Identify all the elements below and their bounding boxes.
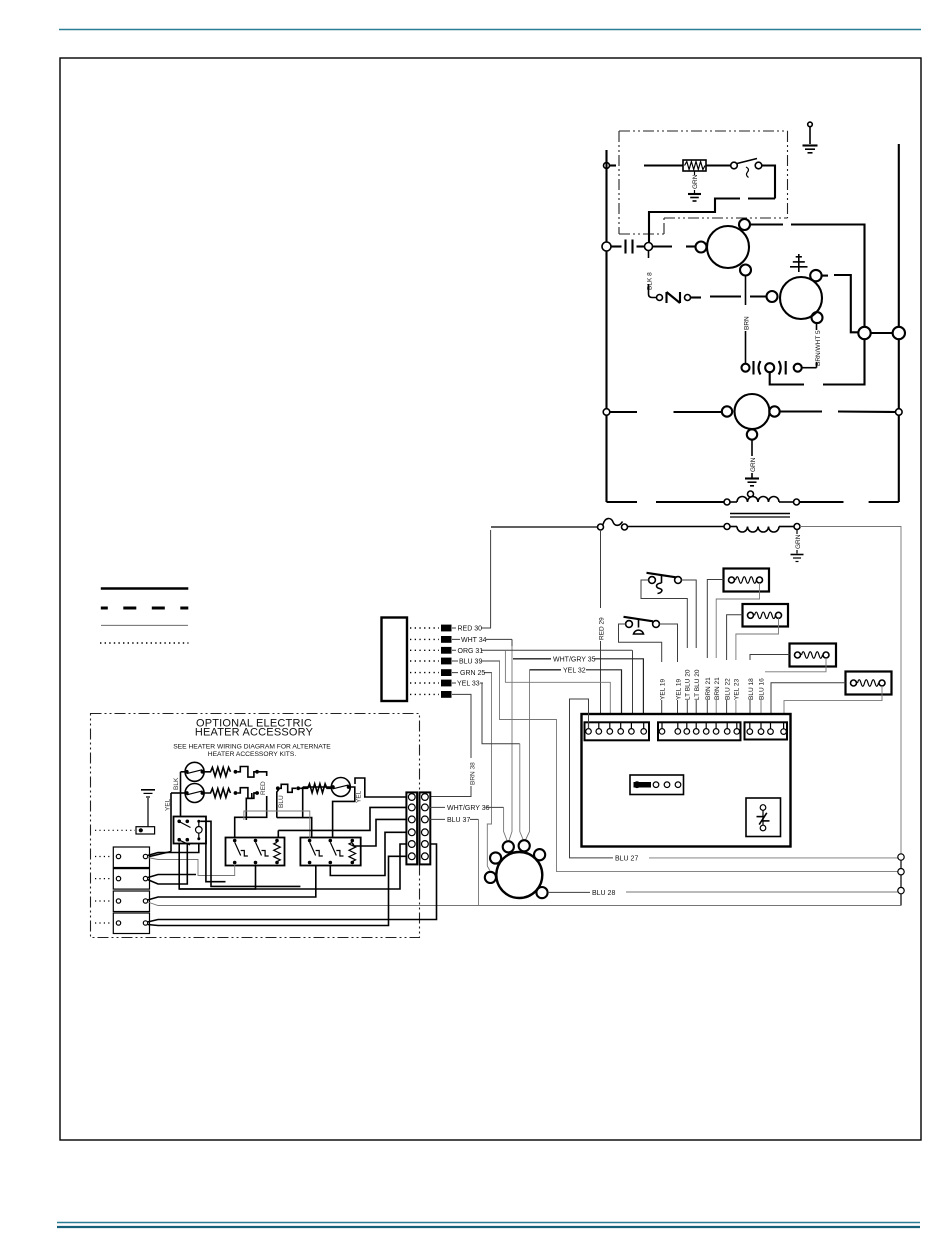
high pressure switch contact (in contactor box) xyxy=(706,159,762,178)
svg-text:RED 30: RED 30 xyxy=(458,626,483,633)
wire node to compressor xyxy=(653,245,672,247)
board inner connector xyxy=(630,775,684,795)
heater limit switch 2 xyxy=(185,784,204,803)
svg-text:BRN/WHT 5: BRN/WHT 5 xyxy=(815,330,822,366)
wire BRN 38 (7th terminal) xyxy=(452,694,471,758)
svg-text:YEL: YEL xyxy=(356,790,363,803)
ground (equipment ground, top right) xyxy=(803,122,818,153)
crankcase heater resistor xyxy=(683,160,706,171)
terminal strip 1 xyxy=(585,722,650,740)
svg-text:GRN: GRN xyxy=(795,534,802,549)
transformer core xyxy=(730,501,737,503)
block2 wiring xyxy=(148,844,197,885)
BLU 27 wire xyxy=(570,699,614,858)
BLU 37 label xyxy=(428,818,445,820)
low pressure switch wiring xyxy=(619,624,662,721)
BRN wire compressor to run cap xyxy=(744,276,751,364)
svg-text:BLU: BLU xyxy=(278,795,285,808)
heater plug right column xyxy=(420,792,431,864)
defrost control board outline xyxy=(582,714,791,847)
legend line: low voltage factory xyxy=(101,624,188,626)
circuit breaker xyxy=(491,519,628,530)
legend line: line voltage factory xyxy=(101,587,189,590)
svg-text:LT BLU 20: LT BLU 20 xyxy=(694,669,701,700)
BLK 8 wire and label xyxy=(647,251,657,298)
RED 29 riser xyxy=(599,530,606,729)
svg-text:YEL 23: YEL 23 xyxy=(734,679,741,700)
svg-text:WHT 34: WHT 34 xyxy=(461,637,487,644)
relay coil top wire xyxy=(200,821,300,886)
YEL wire from limit 3 to sequencer 2 xyxy=(333,787,363,840)
terminal strip 3 xyxy=(745,722,788,739)
grounding lug assembly xyxy=(141,790,155,827)
field terminal block 2 xyxy=(113,869,149,890)
compressor motor xyxy=(696,219,752,276)
heater element 3 xyxy=(300,784,332,793)
svg-text:RED: RED xyxy=(260,781,267,795)
fuse link 3 xyxy=(280,784,297,792)
BLU 28 wire xyxy=(548,891,590,893)
dual run capacitor xyxy=(742,361,817,375)
label YEL 32 xyxy=(530,669,562,671)
wire GRN 25 xyxy=(452,672,492,674)
secondary right grey rail to low-voltage chain xyxy=(800,527,901,854)
low pressure switch xyxy=(624,617,660,634)
fuse link 2 xyxy=(237,788,257,799)
right low-voltage terminal chain xyxy=(898,854,904,906)
svg-text:ORG 31: ORG 31 xyxy=(458,648,484,655)
wire overload to fan motor xyxy=(710,295,741,297)
compressor overload switch xyxy=(657,292,702,303)
svg-text:BRN 21: BRN 21 xyxy=(714,677,721,700)
bottom teal double rule xyxy=(57,1222,920,1224)
node1 and node2 xyxy=(858,327,870,339)
field terminal block 4 xyxy=(113,913,149,934)
fan internal protector xyxy=(790,254,808,272)
svg-text:HEATER ACCESSORY KITS.: HEATER ACCESSORY KITS. xyxy=(208,751,297,758)
legend line: low voltage field xyxy=(100,642,189,644)
svg-text:YEL 33: YEL 33 xyxy=(457,681,480,688)
legend line: line voltage field xyxy=(101,607,189,610)
block3 wiring xyxy=(148,866,316,901)
left column internal wires xyxy=(355,778,406,797)
BRN/WHT 5 wire fan to cap xyxy=(812,323,822,368)
indoor blower motor xyxy=(722,394,780,440)
right bus xyxy=(898,144,900,327)
node at L1 top xyxy=(604,163,610,169)
low voltage connector plug xyxy=(485,840,548,898)
fuse link 1 xyxy=(237,767,257,778)
block4 wiring xyxy=(148,844,437,922)
heater accessory dash-dot enclosure xyxy=(91,714,420,938)
svg-text:YEL 19: YEL 19 xyxy=(676,679,683,700)
svg-text:BLK: BLK xyxy=(173,777,180,790)
blower motor row xyxy=(610,411,637,413)
limit 3 left wire xyxy=(303,787,333,818)
cap common wire to node1 xyxy=(770,372,804,384)
svg-text:BLK 8: BLK 8 xyxy=(647,272,654,290)
pilot box xyxy=(136,827,155,834)
outdoor fan motor xyxy=(767,270,823,323)
svg-text:BLU 18: BLU 18 xyxy=(748,678,755,700)
svg-text:BLU 16: BLU 16 xyxy=(759,678,766,700)
svg-text:SEE HEATER WIRING DIAGRAM FOR: SEE HEATER WIRING DIAGRAM FOR ALTERNATE xyxy=(173,744,331,751)
left L1 bus xyxy=(605,150,607,242)
block1 wiring to relay coil and sequencer xyxy=(148,844,199,856)
svg-text:BRN 38: BRN 38 xyxy=(470,762,477,785)
fan top wire to node xyxy=(822,275,828,277)
label WHT/GRY 35 xyxy=(513,658,551,660)
wire BLU 39 xyxy=(452,660,500,662)
secondary left wire to breaker xyxy=(628,526,724,528)
contactor coil capacitor symbol xyxy=(602,240,653,254)
dash-dot enclosure (contactor box) xyxy=(619,131,788,234)
primary feed wires xyxy=(607,501,638,503)
relay right side wire xyxy=(206,840,226,882)
sequencer 2 xyxy=(300,838,360,866)
high pressure switch xyxy=(647,573,682,594)
svg-text:BLU 37: BLU 37 xyxy=(447,817,470,824)
heater limit switch 1 xyxy=(185,762,204,781)
svg-text:WHT/GRY 35: WHT/GRY 35 xyxy=(553,656,596,663)
svg-text:YEL 32: YEL 32 xyxy=(563,667,586,674)
field terminal block 1 xyxy=(113,847,149,868)
dotted field feeds xyxy=(95,857,112,924)
terminal lugs xyxy=(441,625,452,698)
BLU riser to element 3 xyxy=(277,788,285,817)
outdoor fan relay coil plug xyxy=(846,672,892,695)
ground (crankcase heater) xyxy=(688,194,701,201)
svg-text:HEATER ACCESSORY: HEATER ACCESSORY xyxy=(195,727,314,739)
page border frame xyxy=(60,58,921,1140)
svg-text:BRN 21: BRN 21 xyxy=(705,677,712,700)
board sensor box xyxy=(746,798,781,837)
svg-text:BLU 27: BLU 27 xyxy=(615,855,638,862)
svg-text:BLU 22: BLU 22 xyxy=(725,678,732,700)
BLK supply wire xyxy=(173,772,187,821)
transformer secondary xyxy=(724,524,800,533)
GRN blower ground xyxy=(745,440,759,486)
wire RED 30 xyxy=(452,627,491,629)
sequencer 1 xyxy=(226,838,285,866)
GRN transformer secondary ground xyxy=(791,530,804,562)
svg-text:GRN: GRN xyxy=(692,174,699,189)
thermostat block xyxy=(382,618,408,702)
high pressure switch wiring xyxy=(641,580,687,721)
svg-text:WHT/GRY 36: WHT/GRY 36 xyxy=(447,805,490,812)
wire WHT 34 xyxy=(452,638,512,640)
wire labels above board xyxy=(658,648,766,700)
wire ORG 31 xyxy=(452,649,632,651)
RED wire to sequencer 1 xyxy=(259,772,267,776)
WHT/GRY 36 label xyxy=(428,806,445,808)
heater element 1 xyxy=(204,767,230,776)
svg-text:BLU 28: BLU 28 xyxy=(592,890,615,897)
heater element 2 xyxy=(204,789,230,798)
wire to crankcase heater xyxy=(610,164,616,166)
wire from switch to staircase xyxy=(762,166,775,199)
element supply horizontal xyxy=(277,818,312,838)
svg-text:YEL 19: YEL 19 xyxy=(660,679,667,700)
top teal rule xyxy=(59,29,921,31)
relay to sequencer1 right xyxy=(179,844,255,890)
heater limit switch 3 xyxy=(331,778,351,797)
compressor top wire to right bus xyxy=(750,223,783,225)
YEL supply wire xyxy=(150,793,187,857)
field terminal block 3 xyxy=(113,891,149,912)
grey seq2 left feed xyxy=(244,811,310,838)
svg-text:LT BLU 20: LT BLU 20 xyxy=(685,669,692,700)
transformer primary xyxy=(724,491,800,505)
GRN label (crankcase heater ground) xyxy=(692,171,699,193)
svg-text:BLU 39: BLU 39 xyxy=(459,659,482,666)
svg-text:RED 29: RED 29 xyxy=(599,617,606,640)
heater plug left column xyxy=(406,792,417,864)
svg-text:BRN: BRN xyxy=(744,316,751,330)
wire YEL 33 xyxy=(452,682,483,684)
contactor coil plug xyxy=(724,569,770,592)
svg-text:GRN: GRN xyxy=(750,457,757,472)
defrost relay coil plug xyxy=(790,644,837,667)
reversing valve solenoid plug xyxy=(743,604,789,627)
heater relay xyxy=(174,817,207,846)
terminal strip 2 xyxy=(658,722,741,740)
svg-text:GRN 25: GRN 25 xyxy=(460,670,485,677)
dotted field wires from thermostat xyxy=(410,628,439,694)
